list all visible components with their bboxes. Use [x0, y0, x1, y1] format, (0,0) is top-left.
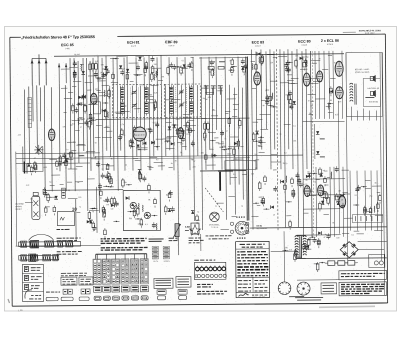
wire	[181, 68, 187, 70]
svg-text:0,1: 0,1	[170, 115, 173, 118]
wire junction	[260, 137, 261, 138]
wire	[207, 93, 213, 95]
resistor	[136, 209, 139, 215]
wire	[278, 55, 287, 57]
svg-text:0,25: 0,25	[153, 121, 157, 124]
coil	[251, 63, 254, 70]
tube ECL86 triode a	[304, 186, 310, 197]
resistor	[73, 72, 76, 77]
wire junction	[273, 106, 274, 107]
resistor	[144, 68, 147, 72]
AF input parts	[103, 197, 120, 239]
resistor	[258, 183, 261, 189]
coil	[77, 118, 80, 125]
switch stem	[96, 254, 98, 259]
resistor	[88, 213, 91, 219]
IF transformer box 2	[164, 84, 200, 117]
IF2 winding d	[190, 102, 194, 114]
wire	[208, 131, 216, 133]
drive text upper	[57, 237, 62, 239]
IF2 winding b	[170, 102, 174, 114]
svg-text:ECH 81: ECH 81	[127, 41, 140, 45]
svg-text:3 DS 125 C: 3 DS 125 C	[365, 32, 375, 35]
svg-text:10n: 10n	[295, 54, 298, 57]
svg-text:10n: 10n	[186, 133, 189, 136]
wire	[68, 198, 78, 200]
capacitor	[265, 101, 269, 103]
wire	[69, 67, 77, 69]
svg-text:47: 47	[323, 236, 325, 239]
wire	[372, 185, 381, 187]
switch connector block	[112, 286, 120, 292]
diode	[104, 66, 108, 69]
long vertical wires output section	[338, 101, 339, 234]
coil	[137, 203, 140, 210]
wire	[342, 169, 349, 171]
wire junction	[316, 263, 317, 264]
capacitor	[187, 64, 191, 66]
IF transformer parts	[167, 61, 194, 76]
svg-text:47: 47	[149, 67, 151, 70]
svg-text:47: 47	[226, 130, 228, 133]
svg-text:8k: 8k	[111, 157, 113, 160]
left pin text	[169, 237, 174, 239]
wire	[232, 115, 237, 117]
svg-text:0,1: 0,1	[145, 223, 148, 226]
table dark band	[237, 266, 242, 268]
svg-text:47: 47	[34, 157, 36, 160]
wire	[146, 98, 153, 100]
wire	[110, 58, 115, 60]
capacitor	[130, 140, 134, 142]
svg-text:3n: 3n	[170, 136, 172, 139]
wire	[141, 147, 148, 149]
wire	[322, 69, 328, 71]
ECC85 cathode parts	[102, 89, 111, 119]
resistor	[104, 111, 107, 117]
svg-text:0,25: 0,25	[229, 147, 233, 150]
psu lower rail	[297, 279, 339, 281]
switch key cap	[131, 296, 138, 300]
coil	[153, 74, 156, 81]
svg-text:220: 220	[285, 246, 288, 249]
coil	[327, 103, 330, 110]
resistor	[34, 165, 37, 170]
wire	[375, 214, 383, 216]
resistor	[289, 222, 292, 227]
resistor	[284, 185, 287, 189]
capacitor	[265, 96, 269, 98]
capacitor	[299, 183, 303, 185]
resistor	[106, 165, 109, 170]
svg-text:220: 220	[193, 165, 196, 168]
capacitor	[142, 177, 146, 179]
band switch parts	[56, 150, 73, 170]
capacitor	[297, 179, 301, 181]
switch stem	[105, 254, 107, 259]
diode	[136, 145, 140, 148]
wire	[106, 165, 114, 167]
wire	[75, 181, 83, 183]
capacitor	[58, 162, 62, 164]
wire junction	[128, 184, 129, 185]
wire	[242, 174, 246, 176]
AF switch parts	[164, 121, 195, 147]
tube ECL86 pentode lower	[335, 87, 343, 99]
resistor	[189, 128, 192, 133]
resistor	[303, 62, 306, 67]
coil	[80, 64, 83, 71]
resistor	[379, 196, 382, 201]
wire	[78, 154, 83, 156]
svg-text:8k: 8k	[95, 155, 97, 158]
resistor	[108, 176, 111, 182]
svg-text:10n: 10n	[338, 100, 341, 103]
screen/chassis double line	[246, 57, 247, 221]
wire	[291, 82, 298, 84]
resistor	[47, 195, 50, 200]
wire	[270, 80, 277, 82]
svg-text:4,7k: 4,7k	[208, 96, 212, 99]
IF2 winding c	[189, 87, 193, 99]
capacitor	[322, 191, 326, 193]
tube ECC80 triode	[303, 73, 310, 86]
resistor	[30, 167, 33, 172]
svg-text:220: 220	[285, 93, 288, 96]
coil	[153, 104, 156, 111]
left band cable rails	[16, 152, 100, 155]
output load star box	[191, 223, 199, 234]
diode	[143, 141, 146, 145]
lamp legend title	[194, 259, 199, 261]
lamp circles	[195, 275, 197, 278]
osc parts	[134, 57, 148, 77]
EM84 socket	[235, 221, 249, 235]
svg-text:2k: 2k	[108, 93, 110, 96]
coil	[285, 176, 288, 183]
wire	[88, 75, 98, 77]
svg-text:2k: 2k	[50, 196, 52, 199]
wire junction	[188, 129, 189, 130]
legend note 1	[197, 283, 200, 285]
phase splitter parts	[284, 54, 298, 73]
wire	[258, 146, 262, 148]
wire	[273, 57, 277, 59]
svg-text:ANTENNE: ANTENNE	[15, 203, 24, 206]
svg-text:47: 47	[86, 151, 88, 154]
wire	[311, 77, 318, 79]
output transformer core	[339, 196, 346, 208]
wire junction	[323, 197, 324, 198]
resistor	[104, 230, 107, 235]
svg-text:10n: 10n	[338, 189, 341, 192]
svg-text:2k: 2k	[171, 162, 173, 165]
resistor	[291, 179, 294, 183]
capacitor	[105, 175, 109, 177]
wire note	[46, 291, 50, 293]
wire	[201, 87, 206, 89]
resistor	[295, 60, 298, 66]
capacitor	[191, 142, 195, 144]
resistor	[113, 199, 116, 203]
wire	[135, 159, 141, 161]
diode	[340, 194, 343, 198]
label box A	[61, 277, 77, 285]
lower knob	[29, 254, 36, 262]
diode	[65, 159, 69, 162]
resistor	[129, 141, 132, 146]
capacitor	[101, 74, 105, 76]
note box right 1	[339, 270, 387, 279]
svg-text:0,25: 0,25	[334, 61, 338, 64]
resistor	[150, 74, 153, 79]
svg-text:3n: 3n	[73, 141, 75, 144]
resistor	[103, 213, 106, 217]
svg-text:330: 330	[356, 188, 359, 191]
tube ECC83 triode a	[254, 72, 261, 85]
EM84 shield box	[225, 160, 256, 169]
capacitor	[96, 163, 100, 165]
wire	[102, 85, 109, 87]
wire	[87, 178, 94, 180]
IF1 winding a	[120, 88, 124, 100]
wire	[45, 206, 50, 208]
switch stem	[134, 254, 136, 259]
capacitor	[284, 64, 288, 66]
connector bumps B	[81, 289, 85, 294]
capacitor	[169, 192, 173, 194]
svg-text:4,7k: 4,7k	[26, 184, 30, 187]
diode	[81, 71, 85, 74]
wire	[323, 213, 328, 215]
resistor	[112, 74, 115, 78]
wire	[287, 79, 294, 81]
capacitor	[317, 241, 321, 243]
wire	[374, 229, 383, 231]
wire	[154, 161, 163, 163]
AM antenna arrows	[58, 63, 60, 83]
wire	[89, 210, 98, 212]
resistor	[261, 56, 264, 62]
wire	[225, 113, 228, 115]
speaker B	[370, 91, 373, 95]
wire	[207, 164, 216, 166]
wire junction	[308, 248, 309, 249]
capacitor	[357, 186, 361, 188]
svg-text:10: 10	[72, 207, 77, 212]
svg-text:1n: 1n	[138, 145, 140, 148]
switch key cap	[141, 296, 148, 300]
diode	[244, 65, 248, 68]
wire	[183, 113, 191, 115]
capacitor	[115, 202, 119, 204]
svg-text:47: 47	[222, 132, 224, 135]
table header text	[240, 243, 245, 245]
switch connector block	[131, 286, 139, 292]
svg-text:3n: 3n	[87, 118, 89, 121]
tube EABC80 detector	[48, 129, 55, 141]
svg-text:0,1: 0,1	[351, 233, 354, 236]
wire	[150, 84, 158, 86]
diode	[306, 175, 309, 179]
dial cord dashed	[205, 188, 223, 212]
resistor	[191, 63, 194, 68]
wire	[258, 145, 261, 147]
wire	[310, 100, 314, 102]
decoupling parts	[241, 58, 248, 75]
resistor	[252, 134, 255, 140]
wire junction	[156, 146, 157, 147]
EM84 note text	[206, 235, 209, 237]
resistor	[377, 204, 380, 208]
dial lamps wiring	[282, 246, 301, 262]
wire	[165, 147, 174, 149]
svg-text:0,25: 0,25	[44, 166, 48, 169]
B+ filter parts	[335, 193, 345, 209]
wire	[79, 155, 85, 157]
capacitor	[241, 60, 245, 62]
diode	[168, 209, 172, 212]
wire	[217, 90, 222, 92]
wire junction	[115, 58, 116, 59]
svg-text:0,1: 0,1	[293, 124, 296, 127]
resistor	[302, 244, 305, 248]
key cap B	[179, 296, 187, 300]
output section box	[346, 52, 383, 116]
wire	[259, 114, 267, 116]
svg-text:BEI HIFI - LANG.: BEI HIFI - LANG.	[355, 68, 370, 71]
wire	[158, 79, 163, 81]
capacitor	[335, 168, 339, 170]
resistor	[264, 177, 267, 182]
svg-text:12 AX 7: 12 AX 7	[255, 44, 261, 47]
svg-text:500: 500	[95, 88, 98, 91]
tuning gang	[32, 196, 40, 219]
connector bumps A	[63, 289, 67, 294]
svg-text:70: 70	[181, 72, 183, 75]
wire	[233, 94, 237, 96]
svg-text:330: 330	[141, 83, 144, 86]
wire	[111, 81, 118, 83]
resistor	[89, 114, 92, 118]
wire	[183, 117, 192, 119]
AM coil winding	[62, 188, 66, 198]
capacitor	[98, 185, 102, 187]
IF1 trimmers	[132, 91, 136, 93]
wire	[60, 183, 64, 185]
capacitor	[106, 70, 110, 72]
svg-text:6 GW 8: 6 GW 8	[327, 43, 333, 46]
resistor	[89, 64, 92, 70]
wire	[330, 77, 335, 79]
capacitor	[150, 58, 154, 60]
wire	[133, 158, 138, 160]
resistor	[43, 189, 46, 194]
wire	[138, 149, 148, 151]
resistor	[196, 216, 199, 220]
wire	[232, 216, 238, 218]
svg-text:70: 70	[314, 181, 316, 184]
wire	[79, 117, 83, 119]
resistor	[53, 207, 56, 211]
capacitor	[181, 138, 185, 140]
svg-text:2k: 2k	[181, 69, 183, 72]
wire	[228, 196, 234, 198]
fuse circles	[374, 261, 378, 265]
top HT rail	[54, 54, 344, 57]
diode	[330, 90, 333, 94]
wire	[51, 174, 60, 176]
rectifier bridge	[340, 242, 358, 258]
svg-text:(ORIG. NL 3937): (ORIG. NL 3937)	[355, 71, 370, 74]
wire	[133, 73, 142, 75]
resistor	[292, 190, 295, 196]
svg-text:HOCHTON: HOCHTON	[369, 100, 379, 103]
svg-text:BF/SOL: BF/SOL	[164, 260, 170, 263]
capacitor	[220, 132, 224, 134]
wire	[68, 168, 77, 170]
wire	[365, 179, 370, 181]
svg-text:0,25: 0,25	[154, 91, 158, 94]
FM tuner front parts	[89, 58, 130, 83]
dial lamp star	[34, 145, 43, 155]
switch stem	[124, 254, 126, 259]
wire	[364, 210, 371, 212]
mains transformer	[295, 236, 298, 237]
capacitor	[326, 235, 330, 237]
diode	[78, 96, 81, 100]
svg-text:5k: 5k	[254, 159, 256, 162]
wire	[328, 112, 333, 114]
capacitor	[180, 131, 184, 133]
wire junction	[322, 262, 323, 263]
svg-text:0,5: 0,5	[95, 60, 98, 63]
wire	[206, 91, 214, 93]
wire junction	[46, 194, 47, 195]
resistor	[138, 173, 141, 179]
wire junction	[270, 105, 271, 106]
motor text	[289, 296, 304, 298]
schematic border frame	[10, 36, 21, 38]
capacitor	[82, 95, 86, 97]
resistor	[148, 185, 151, 189]
wire junction	[154, 215, 155, 216]
connection legend box	[22, 264, 43, 301]
resistor	[207, 123, 210, 129]
svg-text:10n: 10n	[336, 236, 339, 239]
wire	[354, 230, 360, 232]
svg-text:4,7k: 4,7k	[120, 123, 124, 126]
wire junction	[107, 201, 108, 202]
voltage selector box	[369, 254, 385, 267]
AM det parts	[87, 208, 98, 232]
resistor	[319, 203, 322, 208]
svg-text:3n: 3n	[254, 153, 256, 156]
svg-text:47: 47	[193, 160, 195, 163]
wire	[307, 176, 310, 178]
wire	[187, 125, 196, 127]
mixer grid parts	[150, 56, 157, 82]
diode	[318, 231, 321, 235]
svg-text:8k: 8k	[148, 198, 150, 201]
diode	[89, 220, 93, 223]
resistor	[95, 64, 98, 70]
svg-text:0,5: 0,5	[156, 158, 159, 161]
wire	[342, 233, 349, 235]
diode	[82, 95, 85, 99]
diode	[126, 196, 129, 200]
wire junction	[92, 208, 93, 209]
